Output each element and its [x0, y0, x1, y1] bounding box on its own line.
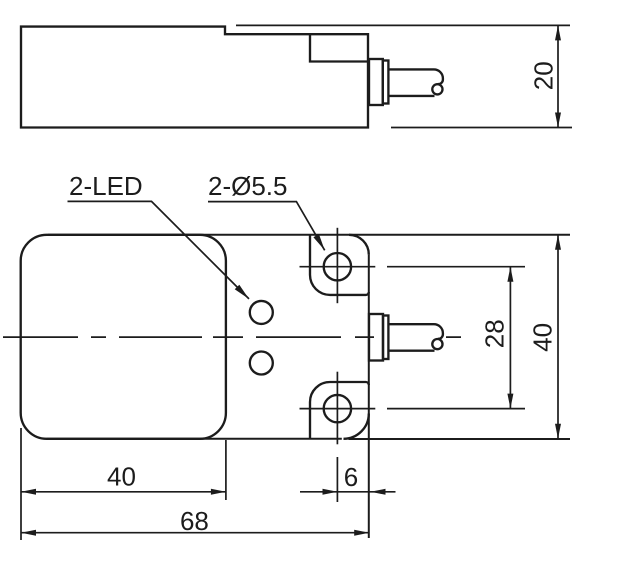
- svg-text:20: 20: [529, 61, 559, 90]
- svg-text:2-LED: 2-LED: [69, 171, 143, 201]
- svg-text:40: 40: [107, 462, 136, 492]
- svg-text:28: 28: [480, 319, 510, 348]
- svg-text:2-Ø5.5: 2-Ø5.5: [208, 171, 288, 201]
- svg-text:40: 40: [527, 323, 557, 352]
- svg-text:6: 6: [344, 462, 358, 492]
- svg-text:68: 68: [180, 506, 209, 536]
